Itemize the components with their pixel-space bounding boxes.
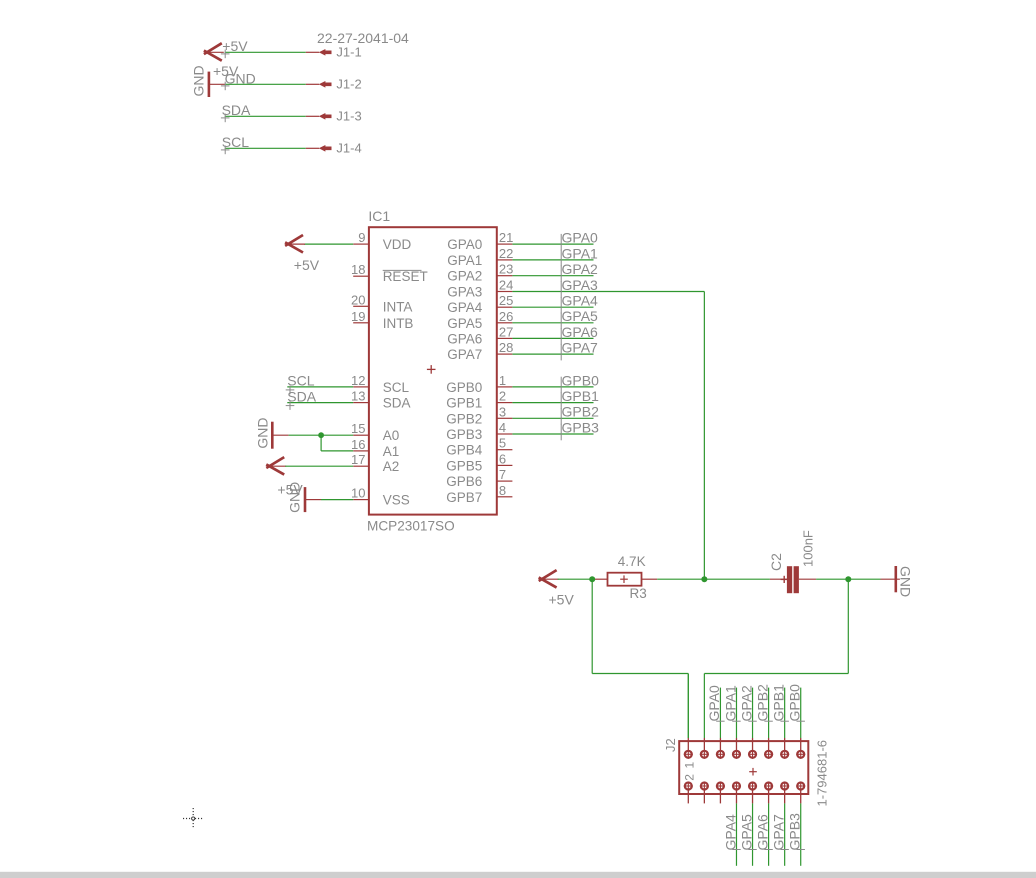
svg-text:4: 4 — [499, 420, 506, 435]
svg-text:GPA6: GPA6 — [447, 331, 482, 346]
svg-text:GPA3: GPA3 — [447, 285, 482, 300]
svg-text:GPB0: GPB0 — [787, 684, 803, 722]
svg-text:24: 24 — [499, 278, 513, 293]
svg-text:GND: GND — [254, 417, 270, 448]
svg-text:GPB1: GPB1 — [446, 396, 482, 411]
svg-text:GPB2: GPB2 — [562, 404, 600, 420]
svg-text:J1-2: J1-2 — [336, 77, 361, 92]
svg-text:GPB3: GPB3 — [562, 419, 600, 435]
svg-text:GPB7: GPB7 — [446, 490, 482, 505]
svg-text:VDD: VDD — [383, 237, 412, 252]
svg-text:GPB5: GPB5 — [446, 458, 482, 473]
svg-text:+5V: +5V — [222, 38, 248, 54]
svg-text:SDA: SDA — [383, 396, 411, 411]
svg-text:100nF: 100nF — [801, 530, 816, 567]
svg-text:23: 23 — [499, 262, 513, 277]
svg-text:GND: GND — [225, 70, 256, 86]
svg-text:GPB3: GPB3 — [787, 813, 803, 851]
svg-text:1: 1 — [499, 373, 506, 388]
svg-text:A1: A1 — [383, 444, 400, 459]
svg-text:VSS: VSS — [383, 493, 410, 508]
svg-text:SCL: SCL — [383, 380, 410, 395]
svg-text:J1-3: J1-3 — [336, 109, 361, 124]
svg-text:GPA0: GPA0 — [447, 237, 482, 252]
svg-text:GPA5: GPA5 — [562, 308, 599, 324]
svg-text:GPA6: GPA6 — [754, 814, 770, 851]
svg-text:J2: J2 — [663, 738, 678, 752]
svg-text:GPA2: GPA2 — [447, 269, 482, 284]
svg-text:GPA7: GPA7 — [447, 347, 482, 362]
svg-text:3: 3 — [499, 404, 506, 419]
svg-text:13: 13 — [351, 389, 365, 404]
svg-text:GPA5: GPA5 — [738, 814, 754, 851]
svg-text:INTA: INTA — [383, 299, 413, 314]
svg-text:GPB0: GPB0 — [562, 372, 600, 388]
svg-text:MCP23017SO: MCP23017SO — [367, 519, 455, 534]
svg-text:25: 25 — [499, 293, 513, 308]
svg-text:A0: A0 — [383, 428, 400, 443]
svg-text:A2: A2 — [383, 459, 400, 474]
svg-text:C2: C2 — [768, 553, 784, 571]
svg-text:GPB1: GPB1 — [770, 684, 786, 722]
svg-text:GND: GND — [190, 65, 206, 96]
svg-text:1-794681-6: 1-794681-6 — [815, 740, 830, 807]
svg-text:J1-4: J1-4 — [336, 141, 361, 156]
svg-text:RESET: RESET — [383, 269, 428, 284]
svg-text:GND: GND — [287, 482, 303, 513]
svg-text:GPB6: GPB6 — [446, 474, 482, 489]
svg-text:GPB3: GPB3 — [446, 427, 482, 442]
svg-text:GND: GND — [897, 566, 913, 597]
svg-text:27: 27 — [499, 324, 513, 339]
svg-text:+5V: +5V — [549, 592, 575, 608]
svg-text:+5V: +5V — [294, 257, 320, 273]
svg-text:GPA2: GPA2 — [562, 261, 599, 277]
svg-text:15: 15 — [351, 421, 365, 436]
svg-text:GPB4: GPB4 — [446, 443, 483, 458]
svg-text:21: 21 — [499, 230, 513, 245]
svg-text:R3: R3 — [630, 586, 647, 601]
svg-text:GPA4: GPA4 — [562, 293, 599, 309]
svg-text:GPA1: GPA1 — [447, 253, 482, 268]
svg-text:GPA4: GPA4 — [722, 814, 738, 851]
svg-text:IC1: IC1 — [368, 208, 390, 224]
svg-text:16: 16 — [351, 437, 365, 452]
svg-text:GPA4: GPA4 — [447, 300, 483, 315]
svg-text:INTB: INTB — [383, 316, 414, 331]
svg-text:9: 9 — [358, 230, 365, 245]
svg-text:2: 2 — [683, 774, 697, 781]
svg-text:GPB1: GPB1 — [562, 388, 600, 404]
svg-text:GPA1: GPA1 — [722, 685, 738, 722]
svg-text:17: 17 — [351, 452, 365, 467]
svg-text:6: 6 — [499, 451, 506, 466]
svg-text:SDA: SDA — [222, 102, 251, 118]
svg-text:8: 8 — [499, 483, 506, 498]
svg-text:GPA7: GPA7 — [562, 340, 599, 356]
svg-text:GPA0: GPA0 — [706, 685, 722, 722]
svg-text:18: 18 — [351, 262, 365, 277]
svg-text:GPB0: GPB0 — [446, 380, 482, 395]
svg-text:12: 12 — [351, 373, 365, 388]
svg-text:GPA5: GPA5 — [447, 316, 482, 331]
svg-text:20: 20 — [351, 292, 365, 307]
svg-text:7: 7 — [499, 467, 506, 482]
svg-text:GPA7: GPA7 — [770, 814, 786, 851]
svg-text:GPA1: GPA1 — [562, 245, 599, 261]
svg-text:26: 26 — [499, 309, 513, 324]
svg-text:GPB2: GPB2 — [754, 684, 770, 722]
svg-text:28: 28 — [499, 340, 513, 355]
svg-text:GPA6: GPA6 — [562, 324, 599, 340]
svg-text:22: 22 — [499, 246, 513, 261]
svg-text:5: 5 — [499, 436, 506, 451]
svg-text:GPA3: GPA3 — [562, 277, 599, 293]
svg-text:19: 19 — [351, 309, 365, 324]
svg-text:2: 2 — [499, 389, 506, 404]
svg-text:GPB2: GPB2 — [446, 411, 482, 426]
svg-text:SCL: SCL — [222, 134, 249, 150]
svg-text:10: 10 — [351, 486, 365, 501]
svg-text:22-27-2041-04: 22-27-2041-04 — [317, 30, 409, 46]
svg-text:1: 1 — [682, 762, 696, 769]
svg-text:J1-1: J1-1 — [336, 45, 361, 60]
svg-text:GPA2: GPA2 — [738, 685, 754, 722]
svg-text:GPA0: GPA0 — [562, 230, 599, 246]
svg-text:4.7K: 4.7K — [618, 554, 646, 569]
